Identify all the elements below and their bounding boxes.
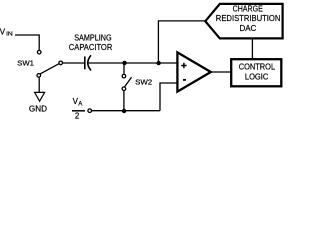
svg-text:IN: IN xyxy=(6,31,13,37)
svg-text:2: 2 xyxy=(75,112,80,121)
svg-text:GND: GND xyxy=(29,104,47,113)
svg-text:SW1: SW1 xyxy=(17,59,34,68)
svg-text:DAC: DAC xyxy=(240,24,257,33)
svg-text:REDISTRIBUTION: REDISTRIBUTION xyxy=(216,14,281,23)
svg-text:LOGIC: LOGIC xyxy=(245,73,268,82)
svg-text:CAPACITOR: CAPACITOR xyxy=(69,43,113,52)
svg-text:CHARGE: CHARGE xyxy=(233,5,264,14)
svg-text:CONTROL: CONTROL xyxy=(239,62,276,71)
svg-text:SW2: SW2 xyxy=(135,77,152,86)
svg-text:SAMPLING: SAMPLING xyxy=(74,33,112,42)
svg-text:V: V xyxy=(0,28,6,37)
